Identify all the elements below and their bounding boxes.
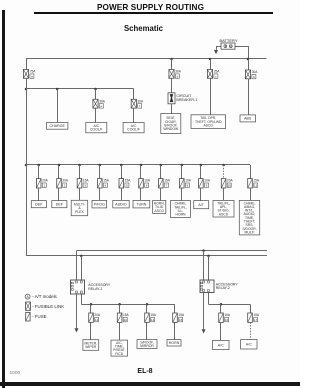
- svg-text:15A: 15A: [123, 313, 130, 317]
- wire fusible link to theft box: [210, 78, 212, 115]
- svg-text:20A: 20A: [42, 179, 49, 183]
- legend symbol fuse: [26, 312, 47, 321]
- wire fuse [12] to load: [90, 322, 92, 339]
- ground (battery): [214, 50, 218, 54]
- svg-text:20A: 20A: [94, 313, 101, 317]
- svg-text:16: 16: [225, 318, 229, 322]
- svg-text:- FUSIBLE LINK: - FUSIBLE LINK: [32, 304, 64, 309]
- wire bus to fuse 10A [9]: [200, 165, 202, 179]
- svg-text:15A: 15A: [103, 179, 110, 183]
- wire relay-1 to ground: [76, 294, 78, 328]
- load box DEF 2: [52, 201, 67, 208]
- fuse 15A [13]: [117, 313, 129, 322]
- subtitle Schematic: [93, 24, 194, 33]
- svg-text:RELAY-1: RELAY-1: [88, 287, 102, 291]
- fusible link 30A [b]: [245, 70, 258, 79]
- wire fusible link to ABS box: [248, 79, 250, 115]
- load box CHIME/TAIL: [171, 201, 191, 218]
- node lower rail / relay-1 junction: [80, 255, 83, 258]
- node accessory bus 1 junction 2: [118, 303, 121, 306]
- load ABS: [240, 115, 256, 122]
- wire accessory bus 1: [81, 304, 175, 306]
- fuse 15A [7]: [159, 179, 171, 188]
- load CHARGE: [47, 122, 68, 129]
- svg-text:RELAY-2: RELAY-2: [216, 286, 230, 290]
- wire fuse [4] to load P/FOG: [99, 188, 101, 200]
- wire main bus to fusible link 75A: [26, 59, 28, 70]
- svg-text:15A: 15A: [224, 313, 231, 317]
- wire relay-1 output to accessory bus 1: [81, 294, 83, 304]
- wire bus to fuse 20A [1]: [38, 165, 40, 179]
- svg-text:8: 8: [187, 184, 189, 188]
- node A/C link 1 junction: [94, 88, 97, 91]
- svg-text:15A: 15A: [253, 179, 260, 183]
- wire battery positive lead: [235, 46, 248, 48]
- svg-text:9: 9: [206, 184, 208, 188]
- svg-text:c: c: [215, 74, 217, 78]
- load box AUDIO: [113, 200, 129, 208]
- fuse 10A [8]: [180, 179, 192, 188]
- svg-text:30A: 30A: [252, 70, 259, 74]
- svg-text:15A: 15A: [164, 179, 171, 183]
- fuse 10A [6]: [139, 179, 151, 188]
- load box bottom 4: [167, 340, 181, 346]
- title rule: [34, 12, 273, 13]
- svg-text:5: 5: [126, 184, 128, 188]
- node fuse bus junction 8: [181, 164, 184, 167]
- wire fusible link to A/C COOL/F 2: [133, 108, 135, 122]
- node fuse bus junction 6: [140, 164, 143, 167]
- wire fuse row bus: [26, 164, 250, 166]
- wire main bus to fusible link 30A [d]: [171, 59, 173, 70]
- load A/C 2 (A/T): [241, 340, 257, 349]
- wire lower rail to relay-2 pin: [208, 256, 210, 280]
- svg-text:30A: 30A: [175, 70, 182, 74]
- wire bus to fuse 15A [17]: [250, 304, 252, 313]
- wire fuse [3] to load MULTI-PLEX: [79, 188, 81, 200]
- svg-text:25A: 25A: [214, 70, 221, 74]
- fuse 15A [17]: [248, 313, 260, 322]
- node charge bus left junction: [25, 88, 28, 91]
- wire drop to CHARGE: [57, 89, 59, 122]
- svg-text:e: e: [101, 104, 103, 108]
- load A/C COOL/F 1: [86, 123, 107, 133]
- node fuse bus junction 2: [58, 164, 61, 167]
- svg-text:30A: 30A: [99, 99, 106, 103]
- wire fuse [5] to load AUDIO: [121, 188, 123, 200]
- load A/C COOL/F 2: [123, 123, 144, 133]
- svg-text:3: 3: [84, 184, 86, 188]
- node fuse bus junction 5: [120, 164, 123, 167]
- legend symbol A/T models: [25, 294, 57, 299]
- node fuse bus junction 3: [78, 164, 81, 167]
- relay ACCESSORY RELAY-2: [200, 280, 238, 293]
- fuse 15A [5]: [119, 179, 131, 188]
- page left margin bar: [2, 10, 5, 388]
- wire bus to fuse 15A [3]: [79, 165, 81, 179]
- fuse 20A [2]: [57, 179, 69, 188]
- ground (relay-2): [202, 329, 206, 333]
- wire bus to fuse 15A [4]: [99, 165, 101, 179]
- wire bus to fuse 15A [7]: [160, 165, 162, 179]
- load box MULTI-PLEX: [71, 200, 88, 215]
- load box A/T: [194, 201, 209, 209]
- fuse 15A [3]: [77, 179, 89, 188]
- fuse 15A [11]: [248, 179, 260, 188]
- svg-text:S/ROOF,MIRROR: S/ROOF,MIRROR: [140, 340, 154, 348]
- node main bus / FL-30A junction: [170, 58, 173, 61]
- node fuse bus junction 1: [37, 164, 40, 167]
- svg-text:15A: 15A: [125, 179, 132, 183]
- svg-text:15A: 15A: [178, 313, 185, 317]
- ground (relay-1): [75, 328, 79, 332]
- svg-text:CHIME,TAIL/FL,ILL,HORN: CHIME,TAIL/FL,ILL,HORN: [174, 202, 187, 217]
- wire fuse [10] to load TAIL/APL/ST-SIG: [223, 188, 225, 200]
- load box HORN/T-LID/ASCD: [153, 201, 166, 214]
- wire left spine to fuse bus: [26, 89, 28, 165]
- node main bus / FL-25A junction: [209, 58, 212, 61]
- wire bus to fuse 15A [5]: [121, 165, 123, 179]
- wire main bus to fusible link 25A [c]: [210, 59, 212, 70]
- svg-text:10A: 10A: [185, 179, 192, 183]
- page title POWER SUPPLY ROUTING: [0, 3, 301, 12]
- wire upper rail to relay-2 pin: [203, 251, 205, 280]
- wire battery negative lead: [216, 46, 221, 48]
- fusible link 25A [c]: [207, 70, 220, 79]
- wire battery ground drop: [216, 46, 218, 50]
- circuit breaker CIRCUIT BREAKER-1: [168, 93, 197, 104]
- load TAIL OPR/THEFT/ASCD: [191, 115, 226, 129]
- svg-text:20A: 20A: [62, 179, 69, 183]
- fusible link 30A [f]: [131, 99, 144, 108]
- fusible link 30A [e]: [93, 99, 106, 108]
- wire bus to fuse 20A [12]: [90, 304, 92, 313]
- svg-text:TAIL/FL,APL,ST/SIG,ASCD: TAIL/FL,APL,ST/SIG,ASCD: [217, 201, 230, 216]
- fuse 15A [15]: [173, 313, 185, 322]
- svg-text:15A: 15A: [150, 313, 157, 317]
- load box TAIL/APL/ST-SIG: [213, 200, 234, 217]
- svg-text:14: 14: [151, 318, 155, 322]
- fuse 10A [9]: [199, 179, 211, 188]
- node lower rail / relay-2 junction: [207, 255, 210, 258]
- wire fusible link 75A to charge bus: [26, 78, 28, 89]
- svg-text:BREAKER-1: BREAKER-1: [176, 98, 197, 102]
- wire drop to fusible link 30A [e]: [95, 89, 97, 99]
- svg-text:10A: 10A: [144, 179, 151, 183]
- wire fuse [13] to load: [119, 322, 121, 340]
- wire upper rail to relay-1 pin: [76, 251, 78, 280]
- svg-text:A/T: A/T: [198, 203, 204, 207]
- svg-text:HORN,T/LIDASCD: HORN,T/LIDASCD: [154, 202, 165, 213]
- svg-text:15A: 15A: [253, 313, 260, 317]
- svg-text:75A: 75A: [30, 70, 37, 74]
- wire left spine to relay rail: [26, 165, 28, 256]
- svg-text:HORN: HORN: [169, 341, 180, 345]
- battery BATTERY: [219, 38, 237, 49]
- svg-text:- A/T models: - A/T models: [32, 294, 57, 299]
- load box bottom 1: [83, 340, 99, 351]
- wire drop to fusible link 30A [f]: [133, 89, 135, 99]
- wire accessory bus 2: [209, 304, 251, 306]
- svg-text:10A: 10A: [204, 179, 211, 183]
- page number EL-8: [95, 368, 195, 375]
- load box bottom 3: [137, 340, 157, 349]
- svg-text:A/C: A/C: [218, 343, 224, 347]
- wire fuse [14] to load: [146, 322, 148, 339]
- node accessory bus 2 junction: [220, 303, 223, 306]
- wire accessory link rail (upper): [77, 250, 268, 252]
- wire fuse [11] to load CHIME/A-BAG tall: [250, 188, 252, 200]
- load SEAT/CIGAR/S-ROOF/WINDOW: [161, 114, 181, 134]
- wire fuse [17] to A/C (A/T models): [250, 322, 252, 339]
- node fuse bus left junction: [25, 164, 28, 167]
- fuse 15A [4]: [98, 179, 110, 188]
- legend symbol fusible link: [26, 302, 65, 310]
- svg-text:ABS: ABS: [244, 117, 252, 121]
- node accessory bus 1 junction 3: [146, 303, 149, 306]
- svg-text:METER,WIPER: METER,WIPER: [84, 341, 97, 349]
- fusible link 30A [d]: [169, 70, 182, 79]
- wire relay-2 output to accessory bus 2: [208, 293, 210, 305]
- wire fuse [15] to load: [174, 322, 176, 339]
- svg-text:6: 6: [146, 184, 148, 188]
- node charge drop junction: [56, 88, 59, 91]
- svg-text:BATTERY: BATTERY: [219, 38, 237, 43]
- node fuse bus junction 4: [99, 164, 102, 167]
- fuse 20A [1]: [36, 179, 48, 188]
- svg-text:- FUSE: - FUSE: [32, 314, 46, 319]
- load box DEF 1: [31, 201, 46, 208]
- fuse 15A [14]: [145, 313, 157, 322]
- wire fuse [6] to load TURN: [140, 188, 142, 200]
- svg-text:A/C: A/C: [246, 343, 252, 347]
- svg-text:TURN: TURN: [136, 202, 146, 206]
- svg-text:P/FOG: P/FOG: [94, 202, 105, 206]
- svg-text:11: 11: [254, 184, 257, 188]
- wire bus to fuse 20A [10]: [223, 165, 225, 179]
- load box TURN: [133, 200, 150, 208]
- wire bus to fuse 15A [15]: [174, 304, 176, 313]
- wire fuse [9] to load A/T: [200, 188, 202, 201]
- wire bus to fuse 10A [6]: [140, 165, 142, 179]
- wire bus to fuse 15A [13]: [119, 304, 121, 313]
- wire bus to fuse 15A [14]: [146, 304, 148, 313]
- fuse 20A [10]: [221, 179, 233, 188]
- svg-text:f: f: [139, 104, 140, 108]
- wire bus to fuse 20A [2]: [58, 165, 60, 179]
- svg-text:DEF: DEF: [56, 202, 64, 206]
- page bottom margin bar: [0, 382, 300, 386]
- footer code 1000: [10, 371, 21, 376]
- wire lower rail to relay-1 pin: [81, 256, 83, 280]
- wire bus to fuse 15A [11]: [250, 165, 252, 179]
- wire bus to fuse 15A [16]: [220, 304, 222, 313]
- wire charge bus: [26, 88, 134, 90]
- svg-text:15: 15: [179, 318, 183, 322]
- wire main bus to fusible link 30A [b]: [248, 59, 250, 70]
- svg-text:30A: 30A: [138, 99, 145, 103]
- svg-text:20A: 20A: [227, 179, 234, 183]
- node fuse bus junction 9: [200, 164, 203, 167]
- svg-text:13: 13: [124, 318, 128, 322]
- svg-text:AUDIO: AUDIO: [115, 202, 127, 206]
- svg-text:2: 2: [64, 184, 66, 188]
- svg-text:10: 10: [228, 184, 232, 188]
- wire fusible link to circuit breaker: [171, 78, 173, 93]
- wire fuse [16] to A/C: [220, 322, 222, 340]
- svg-text:DEF: DEF: [35, 202, 43, 206]
- node fuse bus junction 10: [222, 164, 225, 167]
- wire battery feed to main bus: [248, 46, 250, 59]
- load box bottom 2: [111, 340, 128, 356]
- svg-text:4: 4: [105, 184, 107, 188]
- svg-text:12: 12: [95, 318, 99, 322]
- svg-text:d: d: [177, 74, 179, 78]
- svg-text:17: 17: [254, 318, 258, 322]
- node upper rail / relay-2 junction: [202, 249, 205, 252]
- wire circuit breaker to seat box: [171, 104, 173, 114]
- relay ACCESSORY RELAY-1: [71, 280, 111, 294]
- svg-text:CHARGE: CHARGE: [50, 124, 66, 128]
- node fuse bus junction 7: [160, 164, 163, 167]
- fuse 15A [16]: [219, 313, 231, 322]
- fusible link 75A [a]: [23, 70, 36, 79]
- wire bus to fuse 10A [8]: [181, 165, 183, 179]
- load box P/FOG: [92, 200, 107, 208]
- svg-text:a: a: [31, 74, 33, 78]
- wire main battery bus: [26, 58, 267, 60]
- svg-text:15A: 15A: [83, 179, 90, 183]
- wire relay-2 to ground: [203, 293, 205, 330]
- load box CHIME/A-BAG tall: [239, 200, 259, 235]
- wire fuse [8] to load CHIME/TAIL: [181, 188, 183, 201]
- fuse 20A [12]: [89, 313, 101, 322]
- svg-text:1: 1: [43, 184, 45, 188]
- wire fuse [2] to load DEF 2: [58, 188, 60, 201]
- node accessory bus 1 junction 1: [90, 303, 93, 306]
- wire fuse [1] to load DEF 1: [38, 188, 40, 201]
- node main bus / battery junction: [247, 58, 250, 61]
- wire battery feed rail (lower): [26, 255, 267, 257]
- wire fusible link to A/C COOL/F 1: [95, 108, 97, 122]
- wire fuse [7] to load HORN/T-LID/ASCD: [160, 188, 162, 201]
- load A/C 1: [213, 340, 229, 349]
- svg-text:b: b: [253, 75, 255, 79]
- svg-text:7: 7: [166, 184, 168, 188]
